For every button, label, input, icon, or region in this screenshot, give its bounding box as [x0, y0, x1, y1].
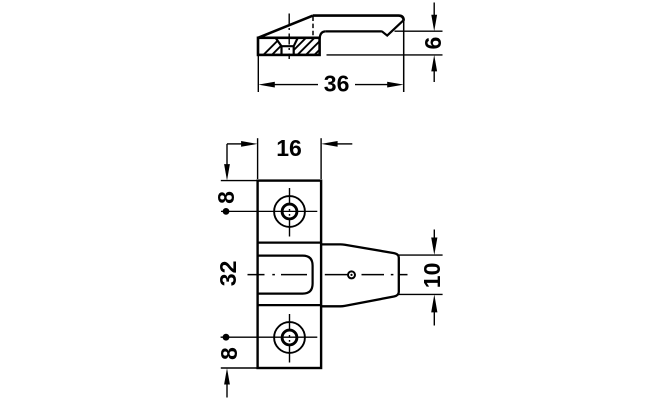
dim 16 arrow right [321, 141, 338, 147]
mounting plate outline [258, 181, 322, 368]
dim 10 extension line top [399, 254, 443, 256]
dim 8 top arrow [224, 164, 230, 181]
dim 16 extension line left [257, 138, 259, 179]
dim 6 arrow bottom [431, 55, 437, 72]
dim 36 line left segment [272, 84, 318, 86]
dim dot lower [223, 334, 230, 341]
upper hole vertical centerline [289, 188, 291, 237]
horizontal centerline [248, 274, 408, 276]
dim 36 line right segment [355, 84, 390, 86]
hatching right of hole [259, 33, 345, 59]
upper hole horizontal centerline [221, 210, 317, 212]
svg-text:32: 32 [215, 261, 241, 287]
plate section outline [258, 38, 320, 55]
dim 6 extension line top [395, 30, 443, 32]
dim 10 extension line bottom [399, 293, 443, 295]
upper screw hole inner [282, 204, 297, 219]
lower screw hole inner [282, 330, 297, 345]
countersunk hole section [276, 38, 298, 55]
svg-text:10: 10 [419, 263, 445, 289]
svg-text:6: 6 [420, 37, 446, 50]
upper screw hole outer [274, 196, 305, 227]
dim 10 arrow top [433, 230, 435, 239]
dim 36 extension line left [257, 56, 259, 92]
dim 8 top leader [226, 144, 228, 165]
dim 36 extension line right [403, 21, 405, 92]
svg-text:16: 16 [276, 135, 302, 161]
dim 6 extension line bottom [327, 54, 443, 56]
hatching left of hole [259, 33, 345, 59]
recess rounded slot [258, 256, 313, 294]
plate bottom extension line [221, 367, 258, 369]
hook claw chamfer and notch [382, 20, 404, 35]
hook base top edge through plate [258, 241, 321, 243]
dim 36 arrow left [258, 82, 275, 88]
sloped top surface [258, 16, 313, 38]
dim dot upper [223, 208, 230, 215]
dim 10 arrow bottom [431, 294, 437, 312]
lower hole vertical centerline [289, 314, 291, 363]
svg-text:8: 8 [213, 191, 239, 204]
hook neck and tapered tip silhouette [321, 244, 399, 306]
dim 8 bottom arrow [224, 368, 230, 385]
hook arm bottom edge [326, 30, 382, 32]
dim 36 arrow right [387, 82, 404, 88]
small hole on hook axis [348, 271, 355, 278]
lower hole horizontal centerline [221, 336, 318, 338]
dim 16 extension line right [320, 138, 322, 179]
hook base bottom edge through plate [258, 304, 321, 306]
hidden edge (dashed) [312, 17, 314, 38]
dim 16 arrow left [227, 143, 243, 145]
svg-text:8: 8 [216, 347, 242, 360]
fillet plate to arm [320, 31, 326, 38]
svg-text:36: 36 [324, 71, 350, 97]
hook arm top edge [313, 16, 404, 21]
plate top extension line [221, 180, 258, 182]
dim 6 arrow top [433, 3, 435, 16]
lower screw hole outer [274, 322, 305, 353]
vertical centerline of screw hole [288, 14, 290, 60]
